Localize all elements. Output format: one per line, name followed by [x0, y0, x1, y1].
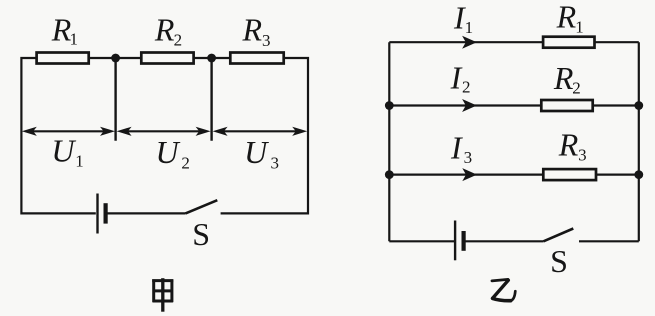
wire from battery to switch (circuit 乙) — [464, 240, 544, 242]
label R3 (circuit 甲) — [242, 11, 271, 50]
resistor R2 (circuit 甲) — [141, 53, 193, 64]
svg-text:1: 1 — [70, 30, 79, 49]
label R1 (circuit 甲) — [51, 11, 78, 48]
label S (circuit 乙) — [550, 243, 568, 279]
wire: left vertical bus of circuit 乙 — [388, 42, 390, 241]
label R2 (circuit 甲) — [154, 12, 182, 50]
svg-text:3: 3 — [464, 148, 473, 167]
resistor R1 (circuit 乙) — [543, 37, 594, 48]
svg-text:1: 1 — [465, 18, 474, 37]
svg-text:R: R — [556, 0, 577, 35]
caption 乙 (drawn strokes) — [492, 279, 515, 300]
svg-text:3: 3 — [271, 154, 280, 173]
branch 1 wire (circuit 乙) — [389, 41, 639, 43]
voltage span arrow U2 (double-headed) — [117, 127, 211, 136]
svg-text:2: 2 — [174, 30, 183, 49]
label R2 (circuit 乙) — [553, 60, 581, 98]
junction node left (branch 2) — [385, 101, 394, 110]
voltage span arrow U3 (double-headed) — [213, 127, 308, 136]
svg-text:2: 2 — [572, 79, 581, 98]
junction node right (branch 2) — [634, 101, 643, 110]
svg-text:U: U — [51, 133, 76, 169]
resistor R2 (circuit 乙) — [541, 100, 592, 111]
svg-text:R: R — [242, 11, 263, 47]
wire: right vertical bus of circuit 乙 — [638, 42, 640, 241]
label U3 — [244, 134, 279, 173]
svg-text:R: R — [154, 12, 175, 48]
svg-text:I: I — [450, 130, 463, 166]
svg-text:2: 2 — [462, 77, 471, 96]
svg-text:3: 3 — [262, 31, 271, 50]
wire between R2 and R3 (circuit 甲) — [194, 57, 231, 59]
current arrow I2 — [462, 99, 477, 112]
switch S lever (circuit 甲, open) — [186, 200, 218, 213]
caption 甲 (drawn strokes) — [152, 278, 173, 312]
current arrow I1 — [462, 36, 477, 49]
svg-text:3: 3 — [578, 146, 587, 165]
node stub below junction 2 (voltage divider mark) — [210, 58, 212, 141]
label S (circuit 甲) — [192, 216, 210, 252]
branch 2 wire (circuit 乙) — [389, 104, 639, 106]
svg-text:U: U — [244, 134, 269, 170]
label I1 — [453, 0, 473, 37]
label I2 — [450, 59, 471, 96]
svg-text:1: 1 — [75, 152, 84, 171]
node stub below junction 1 (voltage divider mark) — [114, 58, 116, 141]
switch S lever (circuit 乙, open) — [544, 229, 574, 242]
svg-text:1: 1 — [575, 17, 584, 36]
label R3 (circuit 乙) — [558, 126, 587, 164]
svg-text:S: S — [192, 216, 210, 252]
junction node left (branch 3) — [385, 170, 394, 179]
svg-text:I: I — [450, 59, 463, 95]
svg-text:R: R — [553, 60, 574, 96]
label U1 — [51, 133, 83, 171]
resistor R3 (circuit 甲) — [230, 53, 283, 64]
wire: right side of circuit 甲 (top-right, right vertical, bottom-right) — [221, 58, 308, 213]
label U2 — [156, 134, 190, 173]
battery cell (circuit 乙): long plate — [454, 221, 456, 261]
wire between R1 and R2 (circuit 甲) — [89, 57, 142, 59]
svg-text:R: R — [558, 126, 579, 162]
label I3 — [450, 130, 472, 167]
battery cell (circuit 甲): short thick plate — [103, 203, 107, 223]
voltage span arrow U1 (double-headed) — [22, 127, 115, 136]
svg-text:S: S — [550, 243, 568, 279]
resistor R1 (circuit 甲) — [37, 53, 89, 64]
resistor R3 (circuit 乙) — [543, 169, 596, 180]
svg-text:2: 2 — [181, 154, 190, 173]
current arrow I3 — [462, 168, 477, 181]
wire from battery to switch (circuit 甲) — [106, 212, 186, 214]
junction node between R1 and R2 — [111, 54, 120, 63]
battery cell (circuit 甲): long plate — [96, 194, 98, 234]
junction node right (branch 3) — [634, 170, 643, 179]
battery cell (circuit 乙): short thick plate — [462, 231, 466, 251]
bottom wire left segment (circuit 乙) — [389, 240, 454, 242]
wire: left side of circuit 甲 (top-left, left vertical, bottom-left) — [21, 58, 95, 213]
wire from switch to right bus (circuit 乙) — [579, 240, 639, 242]
svg-text:U: U — [156, 134, 181, 170]
junction node between R2 and R3 — [207, 54, 216, 63]
branch 3 wire (circuit 乙) — [389, 174, 639, 176]
label R1 (circuit 乙) — [556, 0, 584, 36]
